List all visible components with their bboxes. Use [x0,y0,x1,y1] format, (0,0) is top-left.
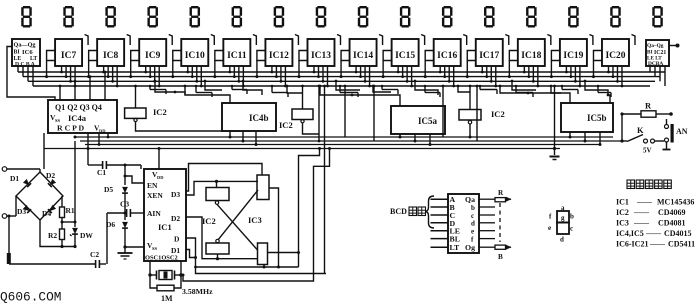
seven-segment display DS12 [484,6,495,28]
diode D3 [17,205,31,216]
seven-segment display DS7 [274,6,284,28]
BCD decoder IC10 [181,39,208,66]
svg-text:IC15: IC15 [395,51,415,61]
svg-text:R1: R1 [66,206,75,215]
label IC2 center [202,216,216,226]
wire left edge riser [7,215,11,265]
svg-text:IC5a: IC5a [418,116,438,126]
display driver chip U2 [431,194,496,253]
svg-text:——: —— [633,218,650,227]
svg-text:——: —— [649,239,666,248]
svg-text:IC10: IC10 [185,51,205,61]
shift register IC5b [561,103,613,132]
resistor R4 [495,189,512,202]
wire D2 loop [186,217,258,260]
BCD decoder IC9 [139,39,166,66]
wire IC18 display hook [547,35,551,46]
AND gate IC3b [258,243,268,265]
diode D1 [10,174,31,187]
wire IC11 display hook [253,35,257,46]
wire IC15 data pins [397,66,413,87]
svg-text:3.58MHz: 3.58MHz [182,287,213,296]
svg-text:IC11: IC11 [227,51,247,61]
seven-segment display DS11 [442,6,452,28]
svg-text:IC2: IC2 [491,109,505,119]
wire bus taps to IC4a [59,71,107,100]
wire XEN to AND gate top [186,164,262,192]
svg-text:Og: Og [465,243,475,252]
wire IC11 data pins [228,66,244,87]
switch K [622,125,664,155]
svg-text:OSC1OSC2: OSC1OSC2 [145,255,178,262]
wire net C riser [182,147,332,281]
svg-text:c: c [570,225,573,233]
seven-segment display DS4 [147,6,157,28]
wire IC10 display hook [211,35,215,46]
inverter IC2e [206,239,229,254]
wire cross diagonal 2 [219,190,259,239]
wire IC9 display hook [169,35,173,46]
crystal X1 3.58MHz [148,261,213,296]
wire D loop [186,238,326,274]
svg-text:BCD: BCD [390,207,407,216]
resistor R [622,101,673,118]
inverter IC2c [459,109,505,124]
svg-text:IC12: IC12 [269,51,289,61]
svg-text:Q606.COM: Q606.COM [0,290,61,305]
BCD decoder IC20 [602,39,629,66]
bridge rectifier wires [16,169,63,220]
wire IC13 display hook [337,35,341,46]
svg-text:IC16: IC16 [437,51,457,61]
wire D1 jog [186,250,197,260]
svg-text:D: D [174,235,180,244]
telephone IC U1 (IC1) [144,169,186,262]
legend line IC4,IC5 [616,229,692,239]
svg-text:IC8: IC8 [103,51,119,61]
svg-text:D3: D3 [171,190,180,199]
svg-text:Q1 Q2 Q3 Q4: Q1 Q2 Q3 Q4 [55,103,102,112]
svg-text:R C P D: R C P D [57,124,84,133]
svg-text:DD: DD [157,175,164,180]
seven-segment display DS1 [21,6,32,28]
wire IC17 data pins [481,66,497,87]
svg-text:Qa–Qg: Qa–Qg [647,43,664,49]
wire IC14 data pins [355,66,371,87]
svg-text:D2: D2 [171,214,180,223]
wire D3 to AND gate [186,180,258,195]
wire IC7 enable stub [45,51,55,79]
svg-text:——: —— [636,197,653,206]
svg-text:e: e [471,228,474,236]
wire IC18 data pins [523,66,539,87]
wire IC20 data pins [607,66,623,87]
zener diode DW [70,136,93,249]
svg-text:BI: BI [14,50,21,56]
BCD decoder IC18 [518,39,545,66]
wire IC20 display hook [631,35,635,46]
resistor R2 [48,229,65,248]
svg-text:AIN: AIN [147,209,161,218]
svg-text:IC2: IC2 [153,107,167,117]
seven-segment display DS5 [190,6,201,28]
wire IC16 display hook [463,35,467,46]
wire IC4a bottom pins [98,133,110,146]
wire IC5a bottom pins [399,134,432,146]
wire C2 right riser [106,213,108,264]
svg-text:D1: D1 [171,246,180,255]
svg-text:IC1: IC1 [616,198,629,207]
seven-segment display DS10 [400,6,411,28]
wire IC12 enable stub [255,51,265,79]
svg-text:IC14: IC14 [353,51,373,61]
seven-segment display DS16 [652,6,663,28]
svg-text:5V: 5V [643,147,652,155]
svg-text:IC13: IC13 [311,51,331,61]
legend line IC2 [616,208,686,218]
wire IC11 enable stub [213,51,223,79]
wire IC21 Vdd stub [669,44,680,48]
svg-text:C3: C3 [120,200,129,209]
BCD decoder IC19 [560,39,587,66]
svg-text:IC9: IC9 [145,51,161,61]
inverter IC2d [206,188,229,205]
svg-text:IC4,IC5: IC4,IC5 [616,229,644,238]
svg-text:b: b [570,213,574,221]
svg-text:IC2: IC2 [279,120,293,130]
wire IC10 data pins [186,66,202,87]
svg-text:CD4015: CD4015 [664,229,692,238]
AC input terminal J2 [2,196,16,218]
label IC3 center [248,215,262,225]
svg-text:R2: R2 [48,231,57,240]
legend line IC3 [616,218,686,228]
BCD decoder IC14 [350,39,377,66]
svg-text:IC17: IC17 [479,51,499,61]
wire IC12 display hook [295,35,299,46]
diode D4 [42,205,56,218]
svg-text:IC2: IC2 [202,216,216,226]
wire BCD bus lines [18,72,665,86]
svg-text:IC7: IC7 [61,51,77,61]
BCD decoder IC15 [392,39,419,66]
legend line IC6-IC21 [616,239,695,249]
wire inverter2 output [303,123,320,134]
shift register IC4a [48,100,117,134]
svg-text:DW: DW [80,231,93,240]
svg-text:e: e [548,224,551,232]
svg-text:Qa—Qg: Qa—Qg [14,42,37,49]
svg-text:C1: C1 [97,168,106,177]
wire bottom supply rail [40,220,75,247]
capacitor C3 [107,200,144,218]
inverter IC2a [125,107,167,122]
wire IC19 data pins [565,66,581,87]
wire IC14 display hook [379,35,383,46]
svg-text:DD: DD [99,129,106,134]
wire bus drop verticals [344,85,479,141]
svg-text:CD4081: CD4081 [658,219,686,228]
wire C1 rail left riser [87,133,90,165]
seven-segment display DS2 [63,6,74,28]
svg-text:IC4a: IC4a [68,113,87,123]
BCD input label [390,207,426,216]
svg-text:c: c [471,212,474,220]
wire IC13 data pins [313,66,329,87]
wire inverter1 input [134,85,137,108]
shift register IC4b [222,103,276,131]
wire C1 rail to IC1 [140,165,142,169]
svg-text:CD5411: CD5411 [668,240,695,249]
wire inverter2 input [301,85,304,109]
svg-text:SS: SS [152,246,158,251]
wire IC19 display hook [589,35,593,46]
wire inverter3 input [469,85,472,110]
watermark [0,290,61,305]
svg-text:IC3: IC3 [248,215,262,225]
resistor R5 [495,245,512,261]
svg-text:D5: D5 [104,185,113,194]
wire net L3 [85,144,600,146]
BCD decoder IC21 [646,40,669,67]
svg-text:B: B [498,253,503,261]
svg-text:IC2: IC2 [616,208,629,217]
svg-text:1M: 1M [161,294,173,303]
wire net L4 [44,148,560,150]
svg-text:R: R [498,189,504,197]
wire IC12 data pins [271,66,287,87]
capacitor C1 [88,161,141,177]
wire net L1 [75,136,613,138]
wire IC6 output pins [18,66,33,86]
wire IC20 enable stub [592,51,602,79]
seven-segment display DS15 [610,6,621,28]
wire IC13 enable stub [297,51,307,79]
wire EN loop [124,175,145,184]
wire AND2 output [268,251,301,254]
BCD decoder IC7 [55,39,82,66]
svg-text:IC19: IC19 [563,51,583,61]
brace [426,196,435,228]
svg-text:SS: SS [55,118,61,123]
BCD decoder IC8 [97,39,124,66]
BCD decoder IC13 [307,39,334,66]
diode D6 [106,213,128,249]
wire IC15 display hook [421,35,425,46]
svg-text:MC145436: MC145436 [657,198,694,207]
svg-text:D1: D1 [10,174,19,183]
svg-text:C2: C2 [90,250,99,259]
AND gate IC3a [257,175,269,200]
wire IC9 data pins [144,66,160,87]
svg-text:IC5b: IC5b [587,113,607,123]
wire IC8 display hook [127,35,131,46]
wire IC5b bottom pins [569,132,602,146]
seven-segment display DS8 [316,6,327,28]
svg-text:IC4b: IC4b [249,113,269,123]
legend line IC1 [616,197,694,207]
svg-text:d: d [471,220,475,228]
seven-segment display DS13 [526,6,537,28]
wire inverter1 output [136,122,223,131]
svg-text:AN: AN [676,127,688,136]
AC input terminal J1 [2,167,40,172]
wire Vdd riser to IC1 [158,147,161,169]
shift register IC5a [391,106,445,134]
legend title [627,180,671,189]
wire IC15 enable stub [382,51,392,79]
seven-segment display DS6 [232,6,242,28]
wire IC16 enable stub [424,51,434,79]
svg-text:IC3: IC3 [616,219,629,228]
wire riser x319 [318,85,321,143]
svg-text:IC18: IC18 [521,51,541,61]
svg-text:XEN: XEN [147,191,163,200]
svg-text:d: d [560,236,564,244]
wire IC7 data pins [60,66,76,87]
BCD decoder IC16 [434,39,461,66]
svg-text:D3: D3 [17,207,26,216]
svg-text:——: —— [645,229,662,238]
wire bus to register taps [154,80,610,106]
svg-text:EN: EN [147,181,158,190]
svg-text:D2: D2 [46,171,55,180]
pushbutton AN [663,119,688,150]
inverter IC2b [279,109,313,130]
wire riser x326 [323,85,326,274]
wire IC8 enable stub [87,51,97,79]
ground GND2 [118,247,133,259]
BCD decoder IC6 [12,39,40,68]
seven-segment display DS3 [105,6,116,28]
BCD decoder IC11 [223,39,250,66]
wire IC18 enable stub [508,51,518,79]
segment naming diagram [548,204,574,244]
svg-text:LT: LT [450,243,460,252]
seven-segment display DS14 [568,6,579,28]
svg-text:g: g [561,214,565,222]
wire AND1 output [269,188,280,269]
wire cross diagonal 1 [217,204,258,250]
svg-text:K: K [637,125,644,135]
svg-text:——: —— [633,208,650,217]
diode D2 [46,171,56,187]
wire IC19 enable stub [550,51,560,79]
wire IC10 enable stub [171,51,181,79]
wire R1-R2 node to DW [61,221,77,224]
wire R to switch [620,112,623,142]
BCD decoder IC17 [476,39,503,66]
wire net L2 [80,140,622,142]
BCD decoder IC12 [265,39,292,66]
wire IC8 data pins [102,66,118,87]
wire IC9 enable stub [129,51,139,79]
svg-text:b: b [471,204,475,212]
wire IC14 enable stub [340,51,350,79]
wire IC17 enable stub [466,51,476,79]
dashed segment line [499,203,501,242]
svg-text:CD4069: CD4069 [658,208,686,217]
svg-text:R: R [645,101,652,111]
diode D5 [104,164,128,214]
wire IC16 data pins [439,66,455,87]
wire net A riser [194,147,321,269]
wire IC6 left pin [7,47,55,101]
wire IC4a R pin to bridge [43,133,45,169]
wire IC21 input pins [650,66,665,86]
wire inverter3 output [469,124,472,139]
resistor R3 1M [150,275,181,303]
wire staircase texture [149,85,611,97]
svg-text:D4: D4 [42,209,51,218]
wire IC4b bottom pins [229,131,258,146]
svg-text:IC1: IC1 [158,222,172,232]
seven-segment display DS9 [358,6,369,28]
svg-text:IC6: IC6 [22,49,33,56]
svg-text:IC20: IC20 [605,51,625,61]
wire IC17 display hook [505,35,509,46]
resistor R1 [60,196,75,229]
svg-text:IC6-IC21: IC6-IC21 [616,240,648,249]
wire IC7 display hook [85,35,89,46]
ground GND1 [550,85,560,160]
capacitor C2 [9,250,106,268]
wire D6 to IC1 Vss [125,246,144,248]
